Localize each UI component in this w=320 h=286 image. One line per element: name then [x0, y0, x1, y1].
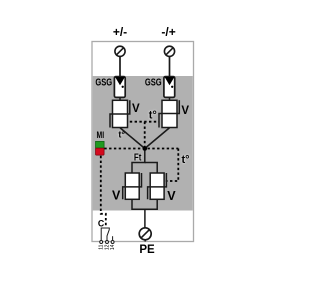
status indicator MI red LED: [96, 148, 105, 155]
label +/-: [113, 25, 127, 39]
terminal L2 (-/+): [164, 46, 174, 56]
label t deg right: [182, 154, 190, 166]
spark gap GSG left: [114, 77, 125, 98]
device outline: [92, 42, 194, 242]
svg-text:+/-: +/-: [113, 25, 127, 39]
varistor V upper-left: [110, 100, 130, 127]
label t deg center: [149, 110, 157, 122]
svg-text:C: C: [98, 219, 105, 229]
wire diagonal from upper-left varistor to node: [120, 128, 145, 149]
wire L2 down: [169, 56, 171, 79]
protection module gray panel: [93, 76, 193, 211]
contact terminal number 11: [99, 244, 105, 249]
label t deg left: [118, 129, 125, 139]
remote signal changeover contact: [100, 228, 114, 243]
wire lower varistor pair join to PE: [132, 199, 157, 227]
wire node to lower varistor pair split: [132, 151, 157, 174]
svg-text:MI: MI: [97, 130, 105, 140]
svg-text:t°: t°: [182, 154, 190, 166]
svg-text:V: V: [167, 189, 176, 203]
label -/+: [161, 25, 175, 39]
wire GSG right to varistor: [169, 97, 171, 100]
varistor V upper-right: [159, 100, 179, 127]
wire L1 down: [119, 56, 121, 79]
status indicator MI green LED: [96, 141, 105, 148]
dashed link MI to remote contact: [101, 156, 106, 228]
contact terminal number 12: [104, 244, 110, 250]
label GSG right: [145, 76, 162, 87]
varistor V lower-right: [148, 173, 167, 199]
svg-text:V: V: [181, 105, 189, 117]
svg-text:V: V: [132, 103, 140, 115]
svg-text:GSG: GSG: [95, 76, 112, 87]
label C: [98, 219, 105, 229]
svg-text:14: 14: [110, 244, 116, 250]
label V upper-left: [132, 103, 140, 115]
label GSG left: [95, 76, 112, 87]
svg-text:Ft: Ft: [134, 152, 142, 163]
wire GSG left to varistor: [119, 97, 121, 100]
svg-text:-/+: -/+: [161, 25, 175, 39]
label PE: [139, 244, 155, 256]
label V lower-left: [112, 188, 121, 202]
contact terminal number 14: [110, 244, 116, 250]
label V lower-right: [167, 189, 176, 203]
spark gap GSG right: [164, 77, 175, 98]
svg-text:GSG: GSG: [145, 76, 162, 87]
label V upper-right: [181, 105, 189, 117]
terminal PE: [139, 228, 151, 242]
label Ft: [134, 152, 142, 163]
label MI: [97, 130, 105, 140]
thermal disconnect t deg center dashed links: [130, 122, 159, 147]
svg-text:V: V: [112, 188, 121, 202]
varistor V lower-left: [123, 173, 142, 199]
dashed link MI to node Ft: [104, 148, 178, 150]
thermal disconnect t deg right dashed link: [166, 149, 179, 182]
terminal L1 (+/-): [115, 46, 125, 56]
svg-text:PE: PE: [139, 244, 155, 256]
node Ft junction dot: [143, 146, 148, 151]
svg-text:t°: t°: [149, 110, 157, 122]
wire diagonal from upper-right varistor to node: [145, 128, 170, 149]
